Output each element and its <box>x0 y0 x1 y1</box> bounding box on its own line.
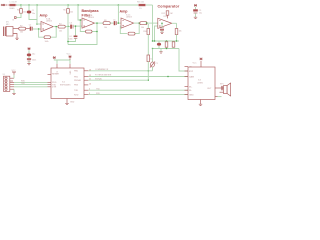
wire op4 output <box>172 22 177 24</box>
svg-text:RESET: RESET <box>52 74 60 76</box>
svg-text:LM324: LM324 <box>126 17 132 19</box>
wire (red stub) power to bead <box>6 4 10 6</box>
inductor L1 ferrite bead <box>10 4 16 6</box>
svg-text:COMPARATOR: COMPARATOR <box>95 68 109 71</box>
IC3 right pin to speaker <box>215 87 224 89</box>
svg-text:10k: 10k <box>70 12 73 14</box>
svg-text:POTENTIOMETER: POTENTIOMETER <box>95 75 112 77</box>
svg-text:10k: 10k <box>141 27 144 29</box>
junction: rail at x37 <box>36 4 37 5</box>
wire divider cluster bottom run <box>153 48 180 50</box>
svg-text:1%: 1% <box>139 8 142 10</box>
wire: op1 feedback loop <box>39 30 44 37</box>
svg-text:RXD: RXD <box>96 93 101 95</box>
svg-text:R18: R18 <box>143 31 146 33</box>
connector pin stubs <box>10 77 14 79</box>
wire long mid B <box>88 76 188 78</box>
wire C5 to op3 <box>117 22 121 24</box>
svg-text:10k: 10k <box>59 31 62 33</box>
junction: rail at x78 <box>77 4 78 5</box>
svg-text:GAIN: GAIN <box>189 76 195 79</box>
wire bead to rail <box>16 4 17 6</box>
wire op2 feedback loop <box>80 20 85 32</box>
wire R4 to C3 <box>65 26 70 28</box>
svg-text:100n: 100n <box>32 60 36 62</box>
capacitor C5 series <box>114 21 116 25</box>
IC1 top pins <box>56 64 58 68</box>
svg-text:Amp: Amp <box>120 10 129 14</box>
wire C2 to op-amp1 IN+ <box>33 28 41 30</box>
resistor R11 series stage4 <box>140 22 147 25</box>
resistor R1 (vertical) <box>20 9 23 14</box>
wire: x68 VCC drop <box>67 5 69 9</box>
svg-text:TXD: TXD <box>74 90 79 92</box>
IC1 left pins <box>48 81 52 83</box>
IC3 left pin stubs <box>185 66 189 68</box>
wire mic pin2 to ground <box>13 34 17 39</box>
wire R8 to C5 <box>110 22 113 24</box>
svg-text:10u: 10u <box>32 54 35 56</box>
resistor R2 (series mic) <box>19 27 26 30</box>
wire: bias drop x21 <box>20 5 22 9</box>
wire op2 output <box>95 22 103 24</box>
junction: rail at x118 <box>118 4 119 5</box>
wire into op-amp1 IN- <box>37 23 41 25</box>
resistor R9 feedback <box>128 32 135 35</box>
ground below comparator <box>161 23 163 27</box>
svg-text:1M: 1M <box>170 13 173 15</box>
svg-text:IC3: IC3 <box>198 80 201 82</box>
svg-text:BYP: BYP <box>189 71 194 73</box>
svg-text:C5: C5 <box>113 19 115 21</box>
wire: top VCC rail <box>17 4 139 6</box>
svg-text:BEAD: BEAD <box>10 7 16 10</box>
wire op3 output <box>134 22 140 24</box>
capacitor C8 <box>27 58 31 60</box>
wire long mid C signal <box>88 79 148 81</box>
ground below cluster <box>160 49 162 52</box>
potentiometer / cap on x152 <box>152 49 154 63</box>
wire: op-amp1 bias drop x37 <box>36 5 38 24</box>
resistor R14 cluster <box>166 40 168 43</box>
svg-text:Amp: Amp <box>40 14 49 18</box>
decoupling chain mid-left: VCC circle <box>28 48 31 50</box>
svg-text:B: B <box>13 20 15 22</box>
svg-text:VCC: VCC <box>193 63 198 65</box>
svg-text:IN-: IN- <box>189 90 192 92</box>
resistor R4 (op1 out series) <box>58 25 65 28</box>
capacitor C7 electrolytic <box>27 53 31 56</box>
wire below R1 to bias node <box>17 13 22 17</box>
ground below chain <box>27 64 30 65</box>
capacitor C3 polarized series <box>70 25 72 29</box>
decoupling chain right: VCC <box>194 4 197 6</box>
svg-text:100n: 100n <box>68 38 72 40</box>
IC1 microcontroller box <box>51 68 84 99</box>
wire vcc bridge <box>57 60 70 64</box>
svg-text:GND: GND <box>70 102 75 104</box>
svg-text:LM324: LM324 <box>46 21 52 23</box>
svg-text:VCC: VCC <box>12 70 17 72</box>
svg-text:LM324: LM324 <box>88 17 94 19</box>
op-amp input marks <box>42 20 160 30</box>
wire bandpass lower run <box>68 32 97 45</box>
IC3 audio amplifier box <box>188 67 215 100</box>
resistor R17 vertical <box>147 55 150 62</box>
svg-text:TXD: TXD <box>21 83 25 85</box>
svg-text:10k: 10k <box>20 32 23 34</box>
capacitor C6 cluster <box>158 41 160 43</box>
IC1 top pin inner labels <box>57 70 72 75</box>
IC1 right pins <box>84 70 88 72</box>
wire comparator IN+ from divider <box>155 25 158 27</box>
resistor R12 hysteresis <box>166 11 169 15</box>
svg-text:Bandpass: Bandpass <box>82 9 99 13</box>
node label BIAS <box>15 17 17 19</box>
ground below C10 <box>160 32 163 33</box>
svg-text:GND: GND <box>189 95 194 97</box>
svg-text:10: 10 <box>89 83 91 85</box>
wire node A down to lower network <box>67 26 69 44</box>
wire long mid A: comparator to x146 <box>88 70 152 72</box>
IC1 pin 4 stub <box>48 74 52 76</box>
svg-text:SIGNAL: SIGNAL <box>95 77 102 80</box>
capacitor C1 (electrolytic) <box>27 11 32 14</box>
svg-text:Comparator: Comparator <box>158 5 180 9</box>
junction: rail at x21 <box>20 4 21 5</box>
svg-text:10k: 10k <box>104 27 107 29</box>
svg-text:10k: 10k <box>23 12 26 14</box>
wire output down <box>176 23 178 28</box>
resistor R15 cluster <box>173 40 175 43</box>
IC3 top pin + VCC <box>200 61 202 67</box>
svg-text:LM386: LM386 <box>197 83 203 85</box>
resistor R3 feedback <box>44 36 51 39</box>
wire: rail right end after series resistor <box>146 4 153 6</box>
wire C4 to lower run <box>68 38 76 41</box>
IC1 pin labels / name <box>52 71 82 97</box>
capacitor C4 lower (bandpass) <box>74 36 78 38</box>
svg-text:R12: R12 <box>162 13 165 15</box>
svg-text:12: 12 <box>89 75 91 77</box>
wire long RX <box>88 94 188 96</box>
wire comparator node down to R17 <box>147 24 149 29</box>
ground below C9 <box>194 17 197 18</box>
svg-text:IC1D: IC1D <box>164 16 169 18</box>
svg-text:13: 13 <box>89 69 91 71</box>
capacitor C2 (polarized, series) <box>30 27 32 31</box>
svg-text:R16 10k: R16 10k <box>137 2 144 4</box>
resistor R8 series stage3 <box>103 22 110 25</box>
svg-text:IC2: IC2 <box>62 82 65 84</box>
wire: decoupling drop x29 <box>28 5 30 11</box>
svg-text:R1: R1 <box>17 10 19 12</box>
svg-text:X1: X1 <box>3 74 5 76</box>
svg-text:R4: R4 <box>59 23 61 25</box>
svg-text:TXD: TXD <box>96 88 100 90</box>
power input supply symbol <box>1 4 5 6</box>
wire rail corner down x152 <box>152 5 154 41</box>
wire: x78 VCC drop to bandpass <box>78 5 82 20</box>
resistor R18 vertical <box>147 29 150 35</box>
IC3 pin labels <box>189 67 212 97</box>
ground below connector <box>13 89 15 93</box>
wire R17 down to IC wire <box>147 62 149 81</box>
svg-text:10u: 10u <box>199 12 202 14</box>
wire cluster right v to amp <box>179 49 188 72</box>
wire: x117 VCC drop <box>117 5 119 23</box>
resistor R13 output vertical <box>175 29 178 35</box>
wire node A branch down <box>75 26 77 35</box>
svg-text:PB2/A1: PB2/A1 <box>74 79 82 82</box>
resistor R10 rail series <box>139 4 146 6</box>
wire R13 down to cluster <box>176 35 178 42</box>
wire op1 output <box>53 26 58 28</box>
wire R2 to C2 <box>26 28 30 30</box>
svg-text:L1 10uH: L1 10uH <box>10 2 18 4</box>
wire mic pin1 <box>13 28 19 30</box>
supply VCC T symbol above connector <box>13 75 15 78</box>
svg-text:C2: C2 <box>29 25 31 27</box>
svg-text:SP1: SP1 <box>220 84 224 86</box>
svg-text:P1: P1 <box>156 63 158 65</box>
capacitor C10 at comparator output <box>160 27 164 29</box>
wire R5 down to node A <box>67 13 69 26</box>
svg-text:DTR: DTR <box>52 87 57 89</box>
wire op3 feedback loop <box>120 26 127 34</box>
junction: rail at x68 <box>67 4 68 5</box>
IC3 bottom pin + ground <box>200 100 202 105</box>
svg-text:R5: R5 <box>63 10 65 12</box>
capacitor C9 electrolytic <box>193 9 198 11</box>
svg-text:R2: R2 <box>20 25 22 27</box>
wire long TX <box>88 89 188 91</box>
svg-text:C3: C3 <box>70 23 72 25</box>
svg-text:OUT: OUT <box>207 88 212 90</box>
svg-text:100k: 100k <box>45 41 49 43</box>
speaker SP1 <box>224 83 231 96</box>
supply VCC symbol right <box>69 56 72 58</box>
wire divider cluster top run <box>153 40 180 42</box>
junction: rail at x29 <box>28 4 29 5</box>
svg-text:MIC: MIC <box>6 24 10 26</box>
svg-text:VCC: VCC <box>67 54 72 56</box>
svg-text:10u: 10u <box>32 13 35 15</box>
svg-text:R8: R8 <box>104 20 106 22</box>
IC1 bottom pin + ground <box>66 99 68 104</box>
connector wires to IC1 <box>14 81 48 83</box>
LM386 right pin bottom stub <box>215 96 218 98</box>
wire C1 to join <box>29 14 37 20</box>
resistor R7 feedback <box>86 30 93 33</box>
ground below mic <box>15 38 18 39</box>
svg-text:ESP8266EX: ESP8266EX <box>60 85 71 87</box>
connector X1 <box>4 76 10 91</box>
wire R11 to comparator <box>147 22 158 24</box>
wire C3 to bandpass node A <box>74 25 83 27</box>
svg-text:10k: 10k <box>179 31 182 33</box>
supply VCC symbol left <box>53 56 56 58</box>
resistor R5 vertical <box>67 9 70 14</box>
svg-text:RXD: RXD <box>74 94 79 96</box>
